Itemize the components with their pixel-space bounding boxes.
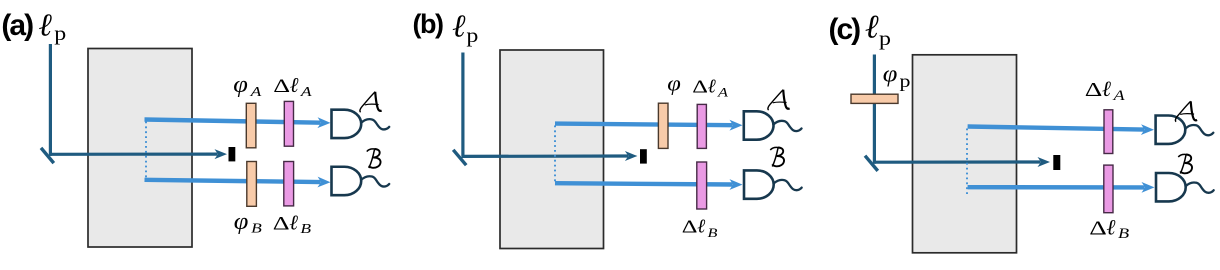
svg-text:ℓ: ℓ xyxy=(290,73,299,97)
label dlA xyxy=(273,73,312,99)
mirror xyxy=(41,148,54,163)
phase plate phiA xyxy=(246,103,256,148)
pump beam horizontal with arrow xyxy=(49,149,227,159)
detector B xyxy=(332,167,390,195)
label script B (b) xyxy=(770,147,784,166)
phase plate phi (b) xyxy=(658,103,668,148)
label script B xyxy=(367,149,381,168)
signal beam A (c) xyxy=(968,124,1154,135)
detector B (b) xyxy=(744,170,802,198)
svg-text:Δ: Δ xyxy=(682,217,698,237)
signal beam B (b) xyxy=(555,179,743,190)
label script A (b) xyxy=(768,90,790,110)
crystal box (b) xyxy=(500,50,604,249)
svg-text:A: A xyxy=(249,84,261,99)
label dlB xyxy=(273,210,312,236)
svg-text:ℓ: ℓ xyxy=(708,77,717,98)
delay plate dlB (c) xyxy=(1104,165,1113,213)
delay plate dlA xyxy=(284,101,293,146)
svg-text:ℓ: ℓ xyxy=(697,217,706,238)
svg-text:(b): (b) xyxy=(413,9,443,39)
label phi_p (c) xyxy=(883,62,911,92)
svg-text:p: p xyxy=(900,72,911,91)
svg-text:(c): (c) xyxy=(829,13,861,46)
label script A (c) xyxy=(1175,101,1197,121)
label dlB (c) xyxy=(1089,215,1129,241)
beam block xyxy=(229,147,236,161)
signal beam A xyxy=(145,117,331,128)
label dlA (c) xyxy=(1085,77,1126,103)
svg-text:φ: φ xyxy=(234,209,249,235)
svg-text:Δ: Δ xyxy=(1085,79,1103,101)
beam block (b) xyxy=(640,149,647,163)
pump beam vertical (c) xyxy=(873,55,874,163)
svg-text:ℓ: ℓ xyxy=(289,210,298,234)
svg-text:ℓ: ℓ xyxy=(38,6,52,42)
svg-text:ℓ: ℓ xyxy=(452,8,466,44)
dotted phase-matching line (b) xyxy=(554,126,556,185)
svg-text:Δ: Δ xyxy=(692,77,708,97)
label script B (c) xyxy=(1178,154,1192,173)
signal beam A (b) xyxy=(555,120,743,131)
svg-text:A: A xyxy=(717,86,729,100)
svg-text:φ: φ xyxy=(667,71,681,96)
mirror (b) xyxy=(453,150,466,165)
svg-text:φ: φ xyxy=(233,72,248,98)
svg-text:A: A xyxy=(300,84,312,99)
svg-text:Δ: Δ xyxy=(1089,218,1107,240)
label phiB xyxy=(234,209,262,236)
mirror (c) xyxy=(865,156,878,171)
svg-text:φ: φ xyxy=(883,62,898,88)
svg-text:p: p xyxy=(879,27,891,50)
label phiA xyxy=(233,72,261,99)
svg-text:ℓ: ℓ xyxy=(1106,215,1115,239)
pump beam horizontal with arrow (b) xyxy=(462,151,638,161)
pump beam vertical xyxy=(49,44,50,154)
crystal box xyxy=(88,49,192,248)
svg-text:B: B xyxy=(251,221,262,236)
label script A xyxy=(360,92,382,112)
signal beam B xyxy=(145,177,331,188)
detector A (b) xyxy=(744,111,802,139)
svg-text:B: B xyxy=(300,222,311,237)
label phi (b) xyxy=(667,71,681,96)
svg-text:p: p xyxy=(54,22,66,45)
beam block (c) xyxy=(1053,155,1060,170)
crystal box (c) xyxy=(913,55,1017,253)
pump beam vertical (b) xyxy=(462,53,463,157)
pump phase plate phi_p (c) xyxy=(851,94,898,103)
label dlA (b) xyxy=(692,77,729,100)
svg-text:ℓ: ℓ xyxy=(865,10,879,46)
pump beam horizontal with arrow (c) xyxy=(873,157,1050,167)
detector A (c) xyxy=(1156,116,1214,144)
dotted phase-matching line (c) xyxy=(966,129,968,196)
detector A xyxy=(332,110,390,138)
svg-text:Δ: Δ xyxy=(273,75,290,96)
detector B (c) xyxy=(1156,173,1214,201)
svg-text:(a): (a) xyxy=(1,9,33,42)
svg-text:B: B xyxy=(1118,225,1129,242)
signal beam B (c) xyxy=(968,182,1155,193)
dotted phase-matching line xyxy=(145,122,147,181)
delay plate dlA (c) xyxy=(1104,110,1113,154)
label dlB (b) xyxy=(682,217,718,241)
phase plate phiB xyxy=(247,162,257,207)
svg-text:A: A xyxy=(1112,87,1125,104)
svg-text:p: p xyxy=(466,24,478,47)
svg-text:Δ: Δ xyxy=(273,213,290,234)
delay plate dlB (b) xyxy=(697,162,707,209)
svg-text:ℓ: ℓ xyxy=(1102,77,1111,101)
delay plate dlB xyxy=(284,162,294,206)
delay plate dlA (b) xyxy=(697,104,706,148)
svg-text:B: B xyxy=(708,226,718,240)
